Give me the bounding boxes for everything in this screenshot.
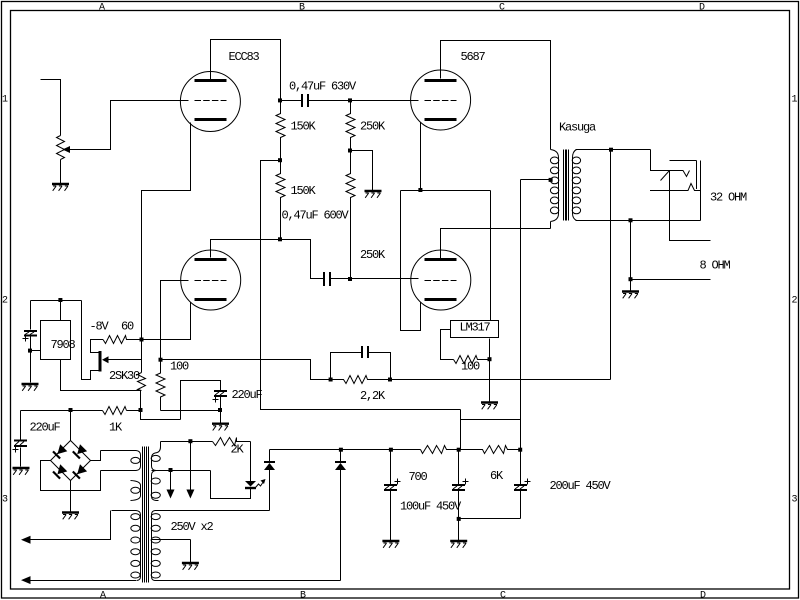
wire -8V top rail: [31, 300, 82, 302]
resistor R1 150K upper: [276, 101, 285, 161]
tube V1 cathode: [195, 118, 227, 121]
wire bus right segment: [161, 410, 221, 412]
wire C2 jog from V2 plate: [281, 240, 325, 279]
wire 7908 gnd pin: [31, 350, 41, 352]
regulator U2 LM317 box: [451, 321, 499, 338]
svg-text:3: 3: [2, 495, 8, 506]
resistor R6 2.2K: [331, 376, 391, 384]
svg-text:250K: 250K: [360, 248, 386, 262]
diode D2 top-right: [77, 444, 87, 454]
node cathode 100 top: [159, 358, 163, 362]
wire cathode100 node to 2.2K: [161, 360, 331, 380]
wire V3 plate to transformer: [441, 41, 551, 150]
potentiometer VR1: [57, 136, 65, 160]
wire heater arrow1: [170, 471, 172, 491]
svg-text:2,2K: 2,2K: [360, 389, 386, 403]
svg-text:D: D: [699, 3, 705, 14]
wire C6 to bus: [220, 397, 222, 423]
wire V1 plate loop: [211, 40, 281, 101]
svg-text:2: 2: [792, 296, 798, 307]
wire bridge bottom to ground: [70, 481, 72, 512]
wire V4 plate to transformer: [441, 229, 551, 259]
svg-text:A: A: [99, 3, 105, 14]
node 5687 grid node: [348, 98, 352, 102]
wire swap link: [141, 411, 181, 420]
wire V2 grid lead: [161, 281, 189, 360]
wire to C1: [281, 100, 303, 102]
capacitor C7 100uF: [390, 450, 392, 541]
node rail D7: [339, 448, 343, 452]
node V1 plate node: [278, 98, 282, 102]
tube V2 ECC83 triode B envelope: [181, 250, 241, 310]
capacitor C8 450V: [458, 450, 460, 541]
node 7908 gnd pin: [28, 349, 32, 353]
node heater arrow1: [169, 468, 173, 472]
wire T2 bottom to diode: [155, 580, 341, 582]
wire bridge right to winding: [91, 451, 101, 461]
ground 7908: [22, 384, 39, 391]
svg-text:D: D: [700, 591, 706, 600]
capacitor C4 plates: [24, 331, 37, 336]
tube V4 5687 B envelope: [411, 250, 471, 310]
wire winding tap row: [152, 470, 211, 472]
resistor R2 150K lower: [276, 161, 285, 240]
wire V3 cathode lead: [420, 123, 422, 191]
node T1 primary center tap: [549, 178, 553, 182]
wire adj to box: [489, 339, 491, 360]
wire heater B left: [31, 580, 137, 582]
svg-text:1: 1: [2, 95, 8, 106]
svg-text:7908: 7908: [51, 338, 76, 352]
wire 7908 top pin: [60, 301, 62, 321]
tube V2 cathode: [195, 298, 227, 301]
node secondary top junction: [609, 148, 613, 152]
node bus cap2: [218, 408, 222, 412]
svg-text:B: B: [300, 591, 306, 600]
svg-text:150K: 150K: [291, 120, 317, 134]
node C8 link: [457, 517, 461, 521]
wire V4 grid: [351, 278, 419, 280]
jack J1 body: [670, 161, 701, 221]
wire jack feed: [651, 150, 670, 171]
transformer T2 winding W3 left: [112, 511, 141, 581]
ground C7: [382, 541, 399, 548]
wire to ground 8ohm: [630, 280, 632, 291]
resistor R7 100 cathode: [156, 360, 165, 411]
resistor R9 gate bias: [138, 373, 146, 391]
svg-text:ECC83: ECC83: [229, 50, 260, 64]
wire 250K junction to ground: [351, 151, 373, 191]
tube V2 grid: [195, 280, 227, 282]
node heater arrow2: [188, 439, 192, 443]
svg-text:LM317: LM317: [460, 321, 491, 335]
transformer T1 primary lead arcs: [551, 150, 559, 229]
wire cathode to LM317: [490, 191, 492, 321]
wire feedback rail: [391, 379, 611, 381]
svg-text:32 OHM: 32 OHM: [710, 191, 747, 205]
ground 250K: [365, 191, 382, 198]
svg-text:220uF: 220uF: [232, 388, 263, 402]
wire cathode bus: [401, 190, 491, 192]
diode D7: [340, 450, 342, 463]
resistor R5 100 (LM317): [454, 356, 490, 364]
svg-text:700: 700: [409, 470, 428, 484]
ground T2 center tap: [182, 563, 199, 570]
ground secondary: [622, 292, 639, 299]
node 8ohm tap junction: [629, 218, 633, 222]
svg-text:150K: 150K: [291, 184, 317, 198]
tube V1 ECC83 triode A envelope: [180, 72, 240, 132]
wire secondary top: [576, 149, 651, 151]
svg-text:100: 100: [170, 360, 189, 374]
svg-text:60: 60: [121, 320, 134, 334]
resistor R11 2K: [213, 438, 251, 446]
wire LED loop: [211, 471, 251, 499]
wire C8 C9 link: [459, 518, 521, 520]
node rail mid: [457, 448, 461, 452]
svg-text:100uF 450V: 100uF 450V: [400, 500, 462, 514]
svg-text:0,47uF 600V: 0,47uF 600V: [282, 209, 350, 223]
wire bus to node: [127, 410, 141, 412]
node V2 plate node: [278, 237, 282, 241]
transformer T2 winding W3 right: [151, 511, 269, 581]
wire B+ rail: [270, 449, 421, 451]
jack J1 ring contact: [650, 184, 701, 191]
wire C2 to node2: [331, 278, 351, 280]
wire V4 cathode link: [401, 191, 421, 331]
transformer T1 secondary lead arcs: [573, 150, 577, 221]
capacitor C3 plates: [362, 346, 368, 358]
svg-text:0,47uF 630V: 0,47uF 630V: [289, 80, 357, 94]
wire bridge top feed: [70, 411, 72, 441]
tube V4 plate: [425, 258, 457, 261]
wire secondary bottom: [576, 220, 701, 222]
resistor R4 250K lower: [346, 151, 355, 279]
wire bridge left to winding: [41, 461, 101, 491]
wire input stub: [41, 80, 61, 136]
wire B+ jog: [461, 410, 521, 450]
svg-text:250K: 250K: [360, 120, 386, 134]
resistor R3 250K upper: [346, 101, 355, 151]
capacitor C3 bypass over 2.2K: [331, 353, 391, 380]
tube V4 cathode: [425, 298, 457, 301]
transformer T1 primary winding: [550, 157, 558, 214]
node bus bridge: [69, 408, 73, 412]
svg-text:C: C: [499, 3, 505, 14]
capacitor C6 220uF second: [214, 391, 227, 396]
transformer T2 winding W2 left stub: [131, 481, 141, 501]
node rail 200uF: [518, 448, 522, 452]
tube V2 plate: [195, 258, 227, 261]
wire wiper to grid: [69, 101, 189, 150]
wire -11V bus left: [21, 410, 103, 412]
wire 2K to LED: [250, 442, 252, 482]
ground C6: [212, 424, 229, 431]
regulator U1 7908 box: [41, 321, 71, 360]
tube V1 grid: [195, 100, 227, 102]
ground C5: [13, 468, 30, 475]
node 250K junction: [348, 149, 352, 153]
wire pot bottom: [60, 160, 62, 184]
capacitor C9 200uF: [520, 450, 522, 519]
tube V1 plate: [195, 79, 227, 82]
svg-text:B: B: [299, 3, 305, 14]
wire heater A left: [31, 511, 111, 540]
svg-text:3: 3: [792, 495, 798, 506]
svg-text:2: 2: [2, 296, 8, 307]
capacitor C4 7908 input: [30, 301, 32, 351]
node 2.2K right: [388, 378, 392, 382]
jack J1 tip contact: [670, 171, 690, 177]
wire V2 plate lead: [211, 240, 281, 258]
resistor R8 60: [103, 336, 142, 344]
svg-text:A: A: [100, 591, 106, 600]
node 7908 in: [58, 298, 62, 302]
capacitor C5 220uF input: [20, 411, 22, 467]
tube V3 plate: [425, 79, 457, 82]
tube V3 grid: [425, 100, 457, 102]
resistor R13 6K: [459, 446, 521, 454]
tube V3 cathode: [425, 118, 457, 121]
node bus 7908: [139, 408, 143, 412]
wire junction to V2 cathode: [142, 303, 191, 340]
svg-text:100: 100: [461, 360, 480, 374]
ground C8: [450, 541, 467, 548]
node rail 100uF: [389, 448, 393, 452]
node cathode junction: [418, 188, 422, 192]
capacitor C2 0.47uF 600V: [324, 272, 330, 286]
diode bridge D1-D4 diamond: [51, 441, 91, 481]
potentiometer wiper arrow: [63, 146, 71, 153]
wire jack common down: [670, 171, 711, 241]
svg-text:250V x2: 250V x2: [171, 520, 214, 534]
ground LM317: [481, 403, 498, 410]
node LM317 adj junction: [488, 357, 492, 361]
svg-text:5687: 5687: [461, 50, 486, 64]
svg-text:2SK30: 2SK30: [109, 369, 140, 383]
transformer T2 winding W1 right: [151, 442, 160, 471]
ground pot: [52, 184, 69, 191]
wire adj to ground: [489, 360, 491, 402]
node 8ohm out junction: [629, 277, 633, 281]
transistor Q1 2SK30 channel: [99, 351, 102, 372]
diode D3 bottom-left: [57, 464, 67, 474]
svg-text:C: C: [500, 591, 506, 600]
LED D5: [245, 481, 256, 487]
wire Q1 gate: [109, 359, 142, 361]
node 2.2K left: [329, 378, 333, 382]
wire gate chain vertical: [141, 340, 143, 373]
wire center tap to B+: [521, 179, 551, 181]
wire V1 cathode lead: [142, 123, 191, 340]
transistor Q1 gate arrow: [102, 356, 109, 363]
transformer T1 secondary winding: [572, 157, 580, 214]
wire heater arrow2: [190, 442, 192, 491]
node between 150K: [278, 158, 282, 162]
svg-text:Kasuga: Kasuga: [559, 121, 596, 135]
wire 7908 out rail: [61, 360, 141, 411]
tube V4 grid: [425, 280, 457, 282]
svg-text:6K: 6K: [490, 469, 504, 483]
diode D4 bottom-right: [77, 464, 87, 474]
wire feedback drop: [610, 150, 612, 380]
svg-text:8 OHM: 8 OHM: [700, 259, 731, 273]
wire C4 to ground: [30, 351, 32, 383]
wire 2K row left: [161, 441, 213, 443]
transformer T1 core: [564, 150, 569, 221]
svg-text:-8V: -8V: [90, 320, 110, 334]
wire B+ drop from 150K junction: [261, 161, 461, 410]
tube V3 5687 A envelope: [411, 70, 471, 130]
wire Q1 drain: [91, 340, 104, 353]
wire C1 to node: [308, 100, 351, 102]
diode D1 top-left: [57, 444, 67, 454]
wire grid 5687 A: [351, 100, 419, 102]
jack J1 switch lever: [661, 171, 670, 181]
wire B+ riser to center tap: [520, 180, 522, 450]
capacitor C1 0.47uF 630V: [302, 94, 308, 107]
ground bridge: [62, 513, 79, 520]
svg-text:1K: 1K: [109, 421, 123, 435]
svg-text:200uF 450V: 200uF 450V: [550, 479, 612, 493]
diode D6: [269, 450, 271, 463]
wire Q1 source: [82, 301, 101, 380]
node coupling node2: [348, 277, 352, 281]
wire 8 OHM output: [631, 279, 711, 281]
svg-text:2K: 2K: [231, 443, 245, 457]
transformer T2 winding W1 left: [101, 451, 141, 471]
wire LM317 out pin: [441, 330, 454, 360]
resistor R12 700: [421, 446, 459, 454]
resistor R10 1K: [103, 407, 127, 415]
wire 8ohm drop: [630, 221, 632, 280]
svg-text:220uF: 220uF: [30, 421, 61, 435]
LED D5 arrow: [256, 482, 264, 488]
capacitor C5 plates: [14, 441, 27, 447]
wire center tap to ground: [190, 540, 192, 563]
wire 220uF2 bracket: [181, 381, 221, 420]
transformer T2 core: [143, 447, 149, 583]
node cathode gate junction: [140, 338, 144, 342]
svg-text:1: 1: [792, 95, 798, 106]
transformer T2 winding W2 right: [151, 471, 160, 501]
